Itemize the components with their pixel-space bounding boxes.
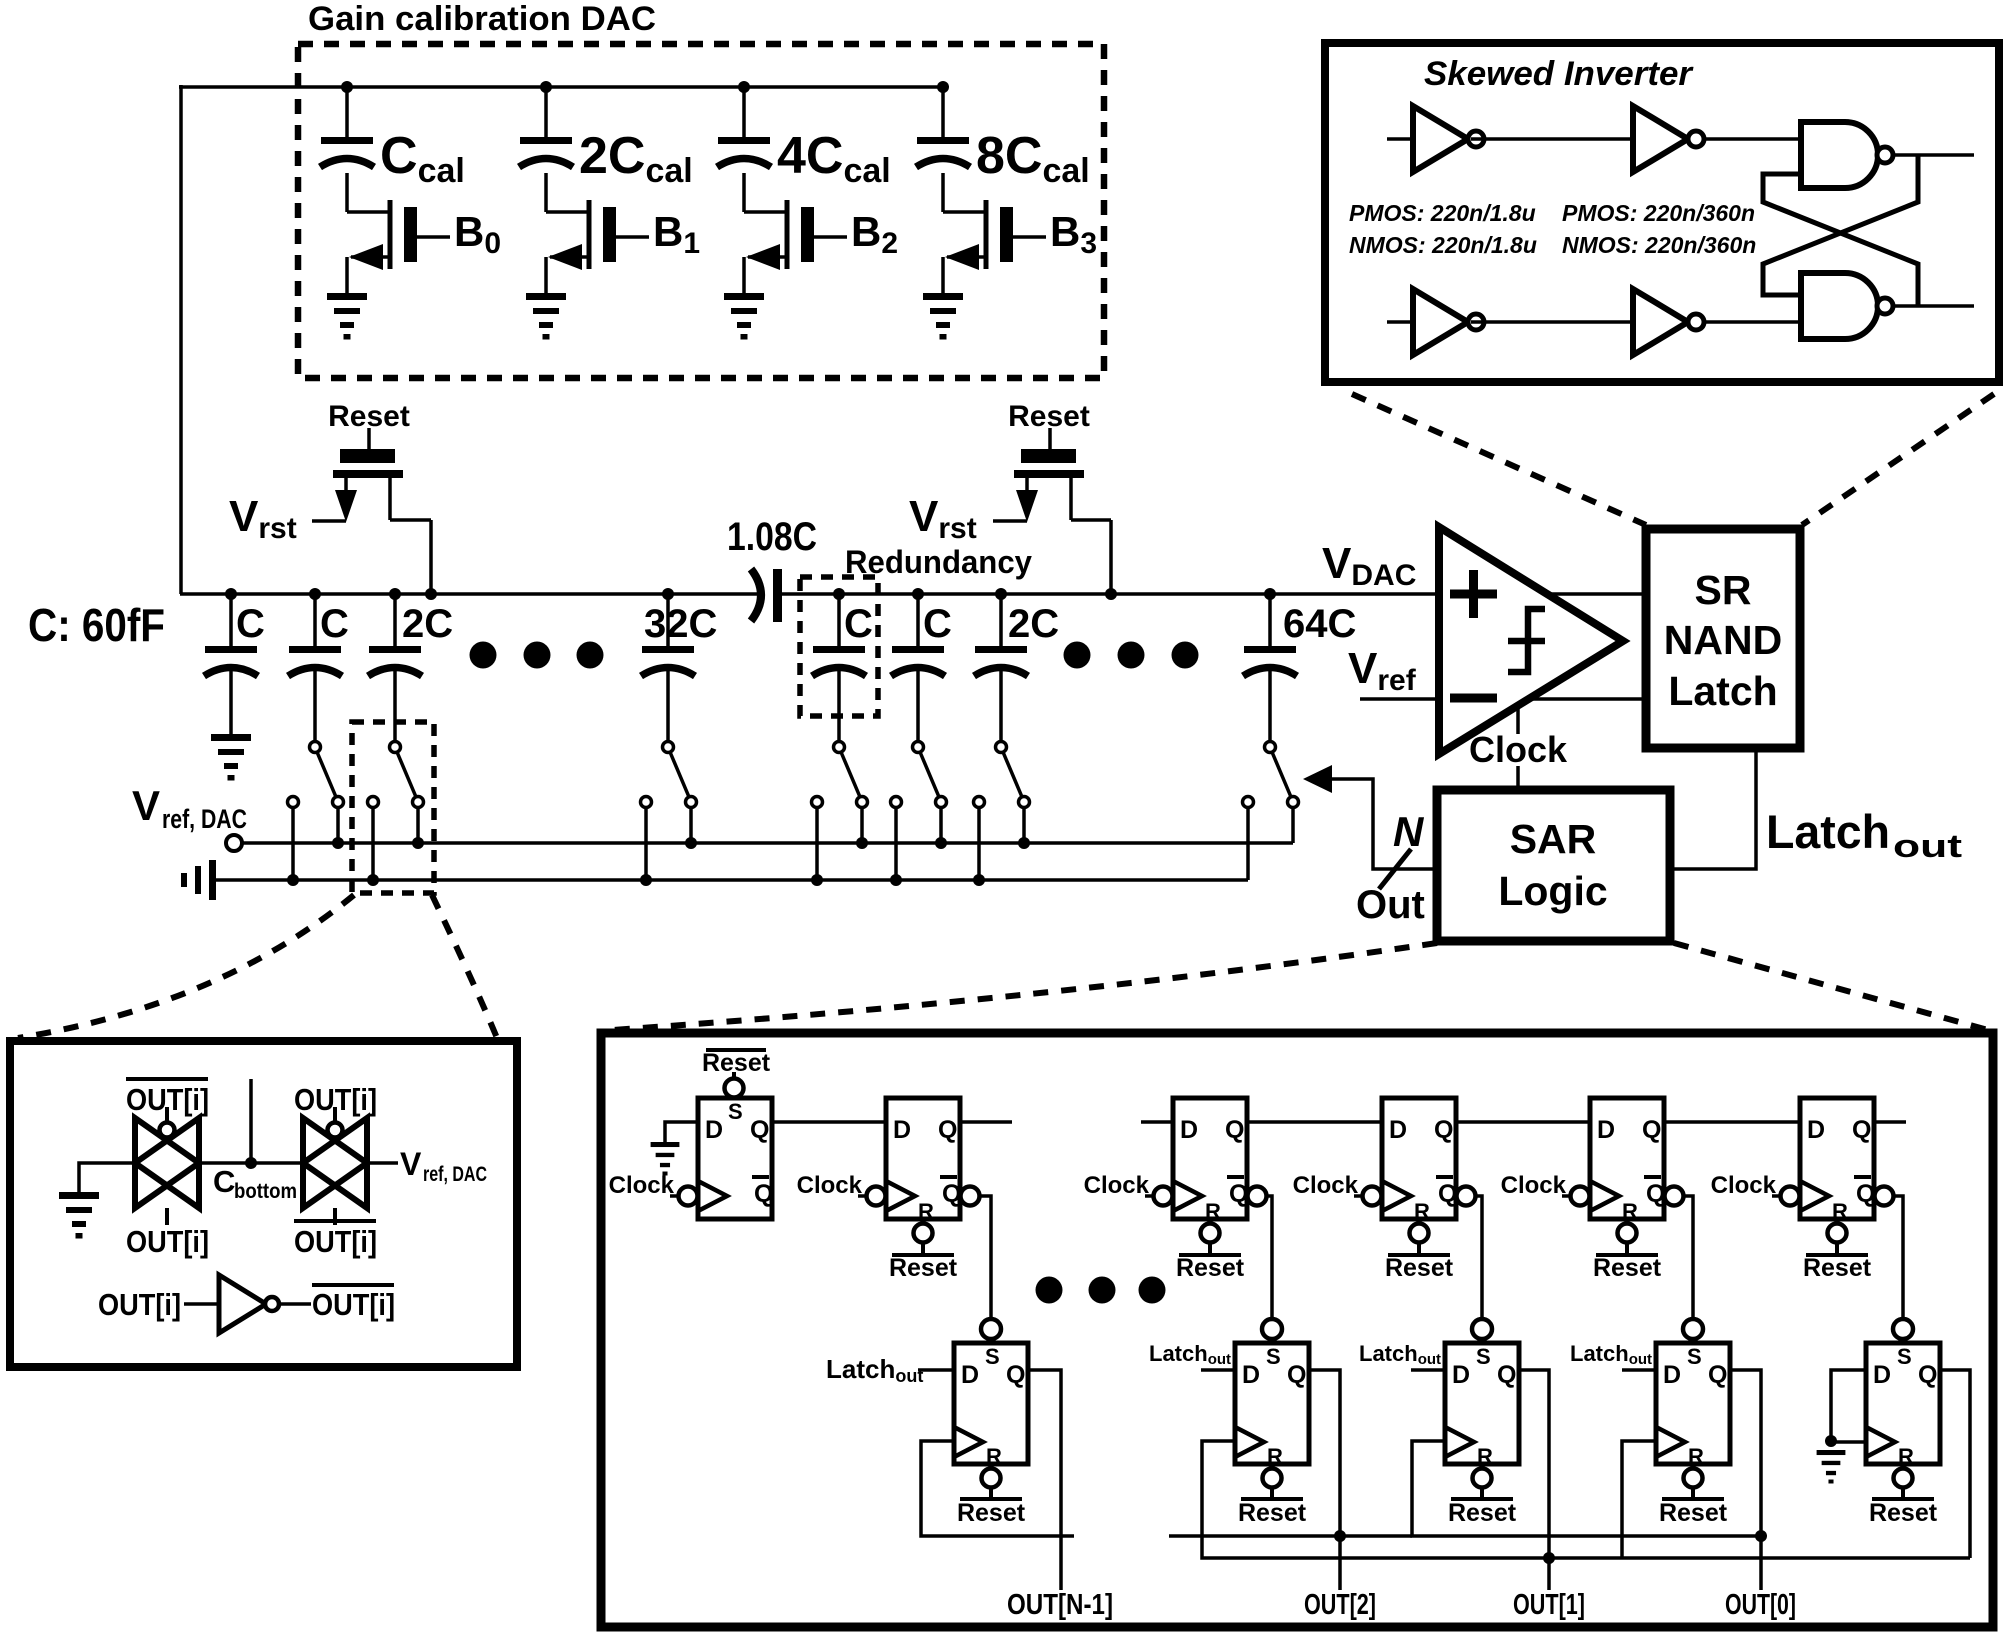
- wire: cap 2C bottom to switch: [999, 670, 1003, 742]
- svg-text:Q: Q: [754, 1180, 773, 1208]
- svg-text:NMOS: 220n/360n: NMOS: 220n/360n: [1562, 232, 1756, 258]
- svg-text:Out: Out: [1356, 883, 1425, 927]
- capacitor 2C (#2): [369, 646, 421, 653]
- node: bus junction cap 2C #2: [389, 588, 401, 600]
- wire: row1 mid: [1471, 137, 1633, 141]
- flip-flop FF6 (ring counter): [1800, 1098, 1874, 1219]
- node: bus junction cap C #0: [225, 588, 237, 600]
- svg-text:N: N: [1393, 808, 1425, 855]
- svg-text:Reset: Reset: [1869, 1499, 1938, 1527]
- svg-text:C: 60fF: C: 60fF: [28, 599, 165, 651]
- svg-text:Q: Q: [1918, 1361, 1937, 1389]
- wire: FF2 Q stub: [960, 1120, 1012, 1124]
- wire: FF5 Qbar to latch S input: [1683, 1196, 1693, 1319]
- svg-text:R: R: [1688, 1444, 1704, 1469]
- node: cal bus junction 0: [341, 81, 353, 93]
- flip-flop FF5 (ring counter): [1590, 1098, 1664, 1219]
- node: C_bottom: [245, 1157, 257, 1169]
- svg-text:bottom: bottom: [234, 1180, 297, 1203]
- dashed leader: SAR logic left: [612, 943, 1437, 1030]
- transmission gate: ground side: [135, 1118, 199, 1208]
- switch: bottom-plate selector for cap 64C: [1265, 742, 1276, 753]
- wire: OUT[2] from latch2 Q: [1309, 1370, 1340, 1590]
- wire: TG1 left to ground: [79, 1163, 135, 1192]
- transmission gate: V_ref,DAC side: [303, 1118, 367, 1208]
- flip-flop: output latch 5: [1866, 1343, 1940, 1464]
- transistor B3 (NMOS switch): [943, 210, 986, 214]
- ground (FF1 D): [651, 1142, 680, 1147]
- wire: FF4 Q to FF5 D: [1456, 1120, 1590, 1124]
- wire: FF3 Qbar to latch S input: [1266, 1196, 1272, 1319]
- flip-flop: output latch 2: [1235, 1343, 1309, 1464]
- flip-flop FF1 (ring counter, first): [698, 1098, 772, 1219]
- wire: comparator clock (lower): [1516, 766, 1520, 791]
- capacitor 2Ccal (gain cal DAC): [520, 137, 572, 144]
- switch: bottom-plate selector for cap C: [834, 742, 845, 753]
- wire: cap 0 to transistor drain: [345, 173, 349, 212]
- node: bus junction cap 64C #7: [1264, 588, 1276, 600]
- box: Skewed Inverter: [1325, 43, 1999, 382]
- inverter: row2 stage2 (360n): [1633, 289, 1688, 355]
- wire: cap C bottom to switch: [313, 670, 317, 742]
- flip-flop: output latch 3: [1445, 1343, 1519, 1464]
- svg-text:R: R: [1832, 1199, 1848, 1224]
- svg-text:R: R: [986, 1444, 1002, 1469]
- wire: ground rail: [216, 878, 1248, 882]
- wire: cap C top: [229, 594, 233, 646]
- bus slash: N bits: [1379, 849, 1411, 889]
- inverter: OUT[i] to OUT[i] bar: [219, 1275, 266, 1333]
- wire: TG1 to C_bottom node: [199, 1161, 303, 1165]
- wire: cap 2C top: [999, 594, 1003, 646]
- block: SR NAND Latch: [1646, 529, 1800, 748]
- svg-text:S: S: [1476, 1344, 1491, 1369]
- wire: DAC top plate bus (right of bridge, V_DAC): [779, 592, 1443, 596]
- svg-text:Gain calibration DAC: Gain calibration DAC: [308, 0, 656, 38]
- wire: source to ground 3: [941, 257, 945, 293]
- svg-text:OUT[i]: OUT[i]: [126, 1082, 209, 1117]
- svg-text:D: D: [705, 1116, 723, 1144]
- wire: cap 2C bottom to switch: [393, 670, 397, 742]
- capacitor 8Ccal (gain cal DAC): [917, 137, 969, 144]
- node: OUT[0] junction: [1755, 1530, 1767, 1542]
- svg-text:R: R: [1477, 1444, 1493, 1469]
- transistor: reset switch 1 (PMOS, Vrst): [367, 428, 371, 449]
- wire: cap 2 to transistor drain: [742, 173, 746, 212]
- svg-text:OUT[i]: OUT[i]: [312, 1287, 395, 1322]
- wire: OUT[1] from latch3 Q: [1519, 1370, 1549, 1590]
- wire: latch4 clock tap: [1622, 1441, 1656, 1558]
- capacitor: 1.08C bridge: [751, 569, 761, 621]
- wire: FF6 Qbar to latch S input: [1893, 1196, 1903, 1319]
- svg-text:out: out: [1893, 828, 1962, 864]
- node: reset-1 drain on bus: [425, 588, 437, 600]
- svg-text:Reset: Reset: [1385, 1254, 1454, 1282]
- wire: V_ref,DAC rail: [242, 841, 1293, 845]
- svg-text:C: C: [236, 602, 265, 646]
- svg-text:Reset: Reset: [1659, 1499, 1728, 1527]
- inverter: row2 stage1 (1.8u): [1413, 289, 1468, 355]
- svg-text:OUT[0]: OUT[0]: [1725, 1589, 1796, 1621]
- svg-text:OUT[i]: OUT[i]: [98, 1287, 181, 1322]
- capacitor C (#1): [289, 646, 341, 653]
- svg-text:D: D: [1389, 1116, 1407, 1144]
- svg-text:NAND: NAND: [1664, 617, 1782, 663]
- node: cal bus junction 2: [738, 81, 750, 93]
- svg-text:V: V: [400, 1146, 422, 1182]
- wire: cap 64C top: [1268, 594, 1272, 646]
- wire: OUT[N-1] from latch1 Q: [1028, 1370, 1061, 1590]
- wire: latch3 clock feedback to OUT[0]: [1412, 1441, 1761, 1536]
- svg-text:ref, DAC: ref, DAC: [162, 804, 247, 834]
- svg-text:Q: Q: [1006, 1361, 1025, 1389]
- wire: source to ground 0: [345, 257, 349, 293]
- svg-text:1.08C: 1.08C: [727, 515, 817, 559]
- svg-text:Clock: Clock: [1293, 1172, 1359, 1199]
- inverter: row1 stage2 (360n): [1633, 106, 1688, 172]
- svg-text:Clock: Clock: [609, 1172, 675, 1199]
- svg-text:D: D: [1242, 1361, 1260, 1389]
- node: cal bus junction 3: [937, 81, 949, 93]
- svg-text:Reset: Reset: [1593, 1254, 1662, 1282]
- switch: bottom-plate selector for cap 2C: [996, 742, 1007, 753]
- svg-text:2C: 2C: [402, 602, 453, 646]
- svg-text:SR: SR: [1695, 567, 1752, 613]
- inverter: row1 stage1 (1.8u): [1413, 106, 1468, 172]
- wire: Latch_out to D (latch 2): [1201, 1368, 1235, 1372]
- dashed leader: switch callout left: [18, 895, 354, 1038]
- wire: cap 2C top: [393, 594, 397, 646]
- wire: V_ref input: [1360, 697, 1443, 701]
- svg-text:Skewed Inverter: Skewed Inverter: [1424, 55, 1694, 93]
- wire: comparator output top to SR latch: [1545, 592, 1649, 596]
- svg-text:Q: Q: [1708, 1361, 1727, 1389]
- dashed box: switch detail callout: [352, 722, 434, 893]
- svg-text:PMOS: 220n/360n: PMOS: 220n/360n: [1562, 200, 1755, 226]
- capacitor 32C (#3): [642, 646, 694, 653]
- svg-text:D: D: [1663, 1361, 1681, 1389]
- transistor B0 (NMOS switch): [347, 210, 390, 214]
- flip-flop: output latch 4: [1656, 1343, 1730, 1464]
- box: SAR logic implementation detail: [601, 1033, 1993, 1627]
- wire: SAR output bus to switches (N): [1330, 779, 1439, 869]
- wire: source to ground 2: [742, 257, 746, 293]
- svg-text:Reset: Reset: [1176, 1254, 1245, 1282]
- wire: skewed inverter row1 input: [1387, 137, 1413, 141]
- wire: comparator clock (upper): [1516, 703, 1520, 734]
- wire: cap 3 to transistor drain: [941, 173, 945, 212]
- svg-text:R: R: [1205, 1199, 1221, 1224]
- comparator + input sign: [1450, 590, 1497, 599]
- wire: cap C bottom to switch: [916, 670, 920, 742]
- svg-text:Clock: Clock: [1711, 1172, 1777, 1199]
- switch: bottom-plate selector for cap 32C: [663, 742, 674, 753]
- svg-text:SAR: SAR: [1510, 816, 1597, 862]
- wire: calibration DAC top bus: [179, 85, 943, 89]
- svg-text:2C: 2C: [1008, 602, 1059, 646]
- box: switch implementation detail: [10, 1041, 517, 1367]
- svg-text:Latch: Latch: [1766, 805, 1890, 858]
- ground (cap C0): [211, 734, 251, 741]
- dots: array continuation (right segment): [1064, 642, 1091, 669]
- wire: DAC top plate bus (left of bridge): [180, 592, 758, 596]
- comparator hysteresis symbol: [1508, 609, 1545, 672]
- wire: SR cross-coupling B (bottom out to top in): [1763, 174, 1918, 306]
- switch: bottom-plate selector for cap 2C: [390, 742, 401, 753]
- svg-text:64C: 64C: [1283, 602, 1356, 646]
- capacitor C (#0): [205, 646, 257, 653]
- svg-text:Reset: Reset: [957, 1499, 1026, 1527]
- svg-text:R: R: [1898, 1444, 1914, 1469]
- block: SAR Logic: [1437, 790, 1670, 941]
- wire: cap 32C top: [666, 594, 670, 646]
- svg-text:Q: Q: [1434, 1116, 1453, 1144]
- wire: cap C top: [313, 594, 317, 646]
- wire: source to ground 1: [544, 257, 548, 293]
- svg-text:S: S: [728, 1099, 743, 1124]
- svg-text:Clock: Clock: [1501, 1172, 1567, 1199]
- NAND gate: top (SR latch detail): [1801, 122, 1878, 188]
- wire: OUT[2] feedback line: [1169, 1534, 1412, 1538]
- svg-text:V: V: [132, 782, 160, 829]
- svg-text:Q: Q: [1852, 1116, 1871, 1144]
- svg-text:OUT[i]: OUT[i]: [294, 1224, 377, 1259]
- dashed box: gain calibration DAC: [298, 44, 1104, 378]
- node: bus junction cap 2C #6: [995, 588, 1007, 600]
- wire: TG2 right to V_ref,DAC: [367, 1161, 398, 1165]
- wire: cap 32C bottom to switch: [666, 670, 670, 742]
- node: latch5 D/clock ground: [1825, 1435, 1837, 1447]
- wire: latch5 D to ground: [1831, 1370, 1866, 1440]
- svg-text:D: D: [961, 1361, 979, 1389]
- svg-text:Q: Q: [1225, 1116, 1244, 1144]
- dots: ring counter continuation: [1036, 1277, 1063, 1304]
- wire: bottom NAND output: [1893, 304, 1974, 308]
- svg-text:Reset: Reset: [1008, 400, 1090, 433]
- wire: Latch_out to D (latch 4): [1622, 1368, 1656, 1372]
- arrowhead: SAR control to switch array: [1303, 765, 1332, 793]
- node: bus junction cap 32C #3: [662, 588, 674, 600]
- wire: row2 mid: [1471, 320, 1633, 324]
- svg-text:ref, DAC: ref, DAC: [423, 1163, 487, 1186]
- svg-text:Q: Q: [1642, 1116, 1661, 1144]
- node: bus junction cap C #5: [912, 588, 924, 600]
- wire: top NAND output: [1893, 153, 1974, 157]
- wire: FF3 Q to FF4 D: [1247, 1120, 1382, 1124]
- svg-text:C: C: [923, 602, 952, 646]
- wire: latch1 clock feedback: [921, 1441, 1074, 1536]
- wire: cap C top: [916, 594, 920, 646]
- terminal: V_ref,DAC input (open circle): [226, 835, 242, 851]
- svg-text:D: D: [1807, 1116, 1825, 1144]
- svg-text:D: D: [893, 1116, 911, 1144]
- svg-text:S: S: [985, 1344, 1000, 1369]
- svg-text:R: R: [918, 1199, 934, 1224]
- svg-text:Reset: Reset: [328, 400, 410, 433]
- wire: inverter output: [279, 1302, 311, 1306]
- wire: cap 64C bottom to switch: [1268, 670, 1272, 742]
- ground (cal branch 3): [923, 293, 963, 300]
- wire: cal branch 0 cap top: [345, 87, 349, 137]
- wire: cap C bottom to switch: [837, 670, 841, 742]
- svg-text:Q: Q: [938, 1116, 957, 1144]
- ground (latch5): [1817, 1450, 1846, 1455]
- capacitor C (#5): [892, 646, 944, 653]
- dashed box: redundancy capacitor: [800, 577, 878, 716]
- wire: Latch_out to D (latch 3): [1411, 1368, 1445, 1372]
- svg-text:Q: Q: [1497, 1361, 1516, 1389]
- transistor B1 (NMOS switch): [546, 210, 589, 214]
- svg-text:C: C: [320, 602, 349, 646]
- dots: array continuation (left segment): [470, 642, 497, 669]
- wire: row2 to NAND: [1704, 320, 1803, 324]
- svg-text:PMOS: 220n/1.8u: PMOS: 220n/1.8u: [1349, 200, 1536, 226]
- wire: FF5 Q to FF6 D: [1664, 1120, 1800, 1124]
- svg-text:Q: Q: [1287, 1361, 1306, 1389]
- svg-text:Reset: Reset: [702, 1049, 771, 1077]
- wire: Latch_out to D (latch 1): [918, 1368, 954, 1372]
- wire: comparator output bottom to SR latch: [1529, 697, 1649, 701]
- wire: cap C top: [837, 594, 841, 646]
- wire: inverter input: [184, 1302, 219, 1306]
- dashed leader: skewed inverter right: [1802, 394, 1994, 525]
- ground (cal branch 2): [724, 293, 764, 300]
- svg-text:OUT[i]: OUT[i]: [294, 1082, 377, 1117]
- node: reset-2 drain on bus: [1105, 588, 1117, 600]
- flip-flop FF3 (ring counter): [1173, 1098, 1247, 1219]
- node: OUT[1] junction: [1543, 1552, 1555, 1564]
- op-amp comparator U1: [1439, 527, 1623, 754]
- wire: left vertical from cal-DAC bus to main DAC top plate bus: [179, 85, 183, 594]
- wire: C_bottom up to cap: [249, 1079, 253, 1163]
- transistor: reset switch 2 (PMOS, Vrst): [1048, 428, 1052, 449]
- capacitor 2C (#6): [975, 646, 1027, 653]
- wire: skewed inverter row2 input: [1387, 320, 1413, 324]
- svg-text:Clock: Clock: [1084, 1172, 1150, 1199]
- svg-text:C: C: [844, 602, 873, 646]
- svg-text:Clock: Clock: [797, 1172, 863, 1199]
- svg-text:Logic: Logic: [1498, 868, 1607, 914]
- comparator - input sign: [1450, 694, 1497, 703]
- wire: latch2 clock feedback to OUT[1] line: [1202, 1441, 1970, 1558]
- wire: FF4 Qbar to latch S input: [1475, 1196, 1482, 1319]
- wire: row1 to NAND: [1704, 137, 1803, 141]
- dashed leader: skewed inverter left: [1352, 394, 1646, 525]
- svg-text:OUT[1]: OUT[1]: [1513, 1589, 1585, 1621]
- ground (cal branch 1): [526, 293, 566, 300]
- node: OUT[2] junction: [1334, 1530, 1346, 1542]
- svg-text:OUT[i]: OUT[i]: [126, 1224, 209, 1259]
- dashed leader: switch callout right: [432, 895, 497, 1038]
- svg-text:D: D: [1452, 1361, 1470, 1389]
- flip-flop: output latch 1: [954, 1343, 1028, 1464]
- svg-text:R: R: [1622, 1199, 1638, 1224]
- node: bus junction cap C #4: [833, 588, 845, 600]
- node: bus junction cap C #1: [309, 588, 321, 600]
- svg-text:Reset: Reset: [1803, 1254, 1872, 1282]
- svg-text:D: D: [1597, 1116, 1615, 1144]
- svg-text:R: R: [1414, 1199, 1430, 1224]
- wire: OUT[0] from latch4 Q: [1730, 1370, 1761, 1590]
- wire: cap 1 to transistor drain: [544, 173, 548, 212]
- capacitor 4Ccal (gain cal DAC): [718, 137, 770, 144]
- svg-text:D: D: [1180, 1116, 1198, 1144]
- capacitor Ccal (gain cal DAC): [321, 137, 373, 144]
- wire: FF3 D stub: [1141, 1120, 1173, 1124]
- wire: FF2 Qbar to latch S input: [979, 1196, 991, 1319]
- capacitor 64C (#7): [1244, 646, 1296, 653]
- svg-text:32C: 32C: [644, 602, 717, 646]
- svg-text:Q: Q: [750, 1116, 769, 1144]
- wire: cal branch 1 cap top: [544, 87, 548, 137]
- wire: cal branch 3 cap top: [941, 87, 945, 137]
- ground symbol (rail, rotated): [209, 860, 216, 900]
- svg-text:R: R: [1267, 1444, 1283, 1469]
- flip-flop FF2 (ring counter): [886, 1098, 960, 1219]
- switch: bottom-plate selector for cap C: [310, 742, 321, 753]
- wire: FF6 Q stub: [1874, 1120, 1906, 1124]
- flip-flop FF4 (ring counter): [1382, 1098, 1456, 1219]
- svg-text:Reset: Reset: [889, 1254, 958, 1282]
- wire: cal branch 2 cap top: [742, 87, 746, 137]
- svg-text:Reset: Reset: [1448, 1499, 1517, 1527]
- ground (TG1): [59, 1192, 99, 1199]
- dashed leader: SAR logic right: [1674, 943, 1988, 1030]
- svg-text:S: S: [1687, 1344, 1702, 1369]
- transistor B2 (NMOS switch): [744, 210, 787, 214]
- NAND gate: bottom (SR latch detail): [1801, 273, 1878, 339]
- node: cal bus junction 1: [540, 81, 552, 93]
- svg-text:OUT[N-1]: OUT[N-1]: [1007, 1589, 1113, 1621]
- svg-text:C: C: [213, 1164, 235, 1199]
- wire: latch5 Q wrap-around: [1940, 1370, 1970, 1558]
- svg-text:S: S: [1266, 1344, 1281, 1369]
- wire: FF1 D input to ground: [665, 1122, 698, 1142]
- svg-text:NMOS: 220n/1.8u: NMOS: 220n/1.8u: [1349, 232, 1537, 258]
- svg-text:Reset: Reset: [1238, 1499, 1307, 1527]
- wire: latch5 clock to ground: [1831, 1440, 1866, 1444]
- wire: SR cross-coupling A (top out to bottom in): [1763, 155, 1918, 295]
- wire: FF1 Q to FF2 D: [772, 1120, 886, 1124]
- ground (cal branch 0): [327, 293, 367, 300]
- svg-text:OUT[2]: OUT[2]: [1304, 1589, 1376, 1621]
- wire: cap C0 bottom to ground: [229, 670, 233, 734]
- svg-text:D: D: [1873, 1361, 1891, 1389]
- svg-text:S: S: [1897, 1344, 1912, 1369]
- svg-text:Clock: Clock: [1469, 729, 1568, 770]
- capacitor C (#4): [813, 646, 865, 653]
- switch: bottom-plate selector for cap C: [913, 742, 924, 753]
- svg-text:Latch: Latch: [1668, 668, 1777, 714]
- wire: Latch_out from SR latch to SAR logic: [1672, 752, 1756, 869]
